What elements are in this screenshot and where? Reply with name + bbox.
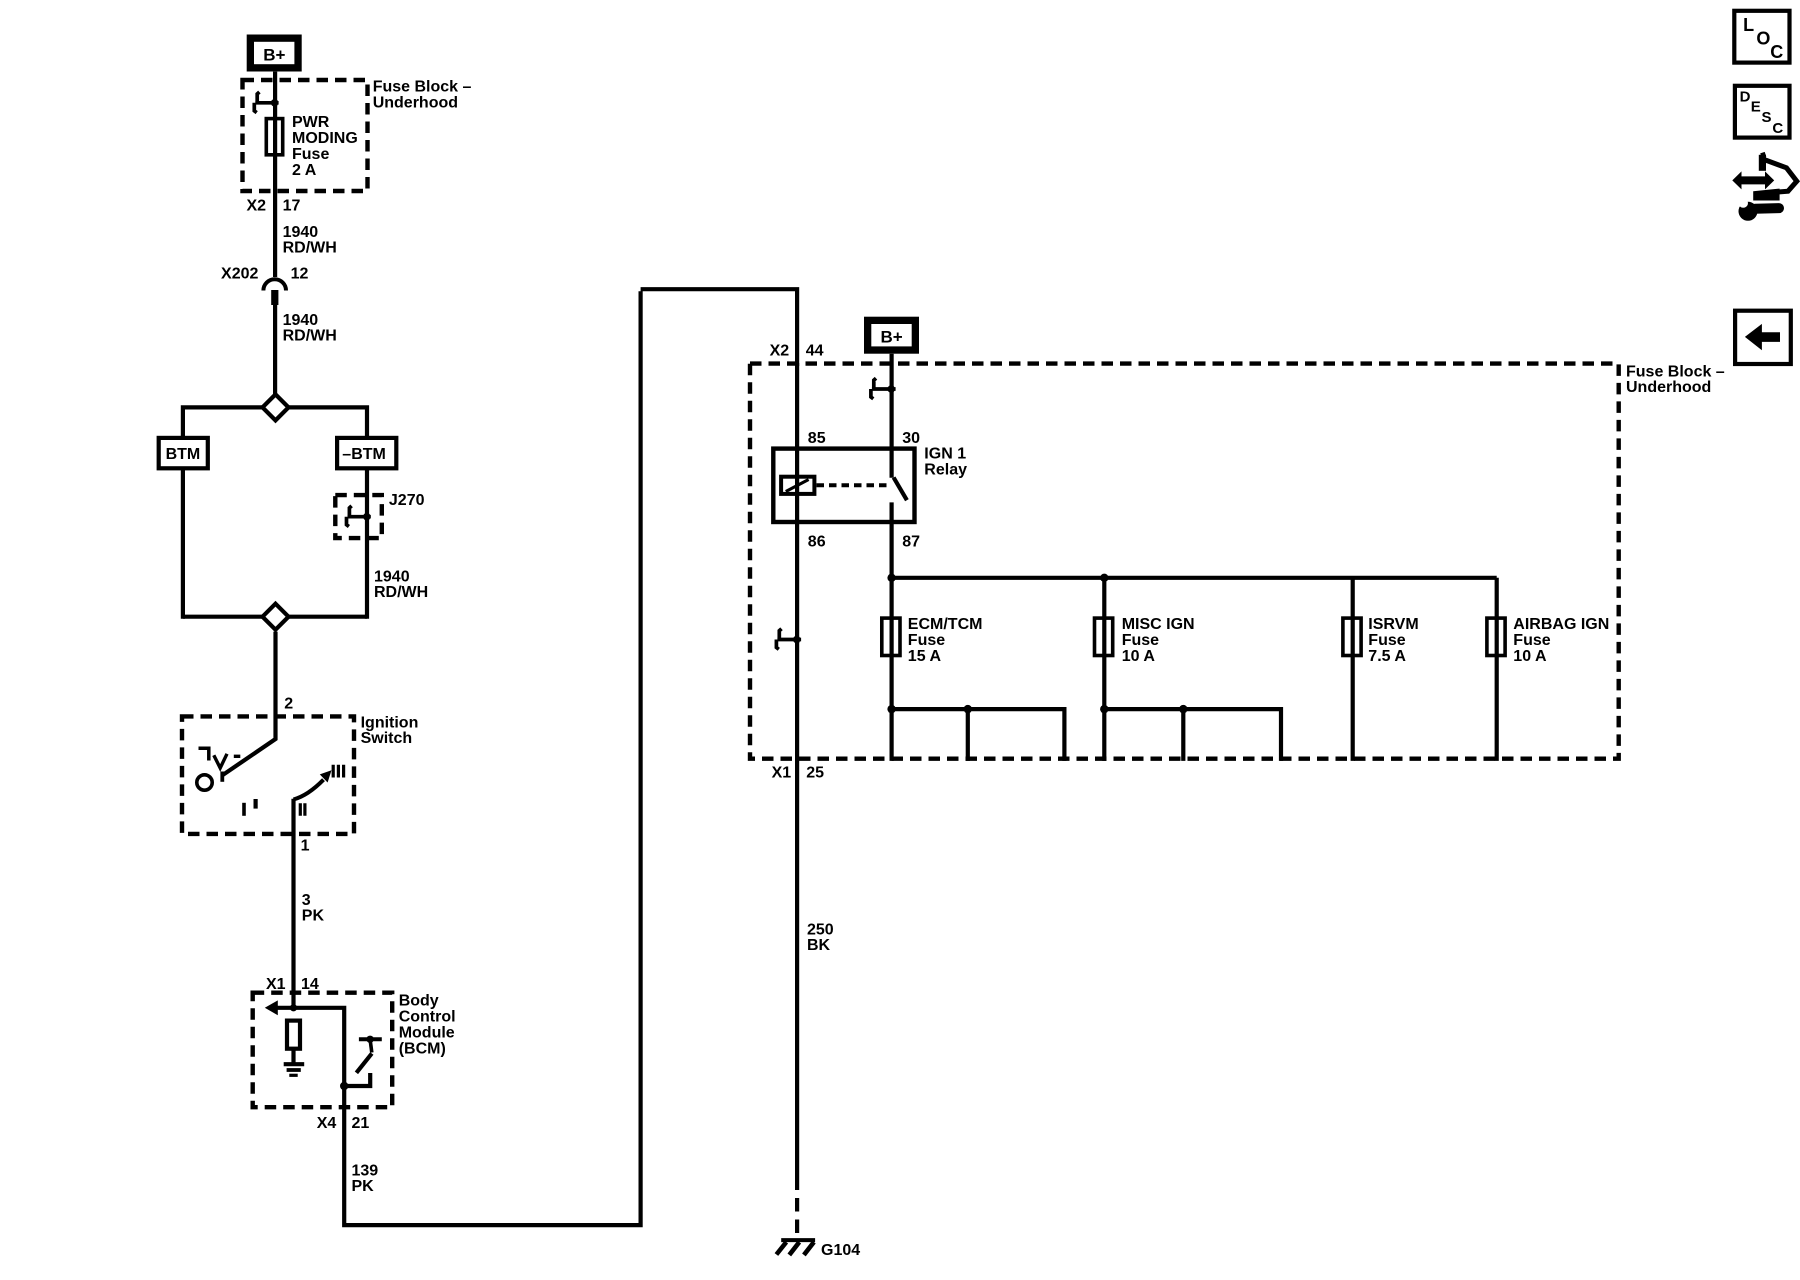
svg-text:PWR: PWR xyxy=(292,114,330,131)
svg-text:85: 85 xyxy=(808,430,826,447)
svg-text:250: 250 xyxy=(807,921,834,938)
svg-text:3: 3 xyxy=(302,892,311,909)
svg-text:Fuse: Fuse xyxy=(292,146,329,163)
svg-text:86: 86 xyxy=(808,533,826,550)
svg-text:L: L xyxy=(1743,15,1754,35)
wire BTM leg down xyxy=(181,468,185,619)
wire label 250 BK xyxy=(807,921,834,954)
wire resistor to internal ground xyxy=(291,1049,295,1063)
wire relay pin 85 through coil to pin 86 xyxy=(795,363,799,643)
wire ECM/TCM fuse lower branch xyxy=(887,705,1064,761)
svg-text:Ignition: Ignition xyxy=(361,715,419,732)
relay coil xyxy=(781,477,814,494)
svg-text:Underhood: Underhood xyxy=(1626,379,1711,396)
svg-text:G104: G104 xyxy=(821,1242,860,1259)
pin label X1 25 xyxy=(772,764,824,781)
wire X202 to top splice diamond xyxy=(273,305,277,394)
wire ignition switch pin 1 down to BCM xyxy=(291,799,295,1009)
BCM pull-down resistor xyxy=(287,1021,300,1049)
wire label 3 PK xyxy=(302,892,325,925)
fuse block underhood (right) dashed box xyxy=(750,364,1619,759)
LOC navigation box xyxy=(1734,11,1789,63)
svg-text:X4: X4 xyxy=(317,1115,337,1132)
wire relay pin 86 down to X1 25 and ground run xyxy=(795,641,799,1177)
svg-text:X1: X1 xyxy=(772,764,792,781)
svg-text:–BTM: –BTM xyxy=(342,446,386,463)
svg-text:S: S xyxy=(1762,109,1772,126)
svg-text:O: O xyxy=(1756,29,1770,49)
wire label 1940 RD/WH (second) xyxy=(283,312,337,345)
junction dot MISC IGN bus xyxy=(1100,574,1108,582)
BCM internal switch xyxy=(340,1036,382,1091)
svg-text:Underhood: Underhood xyxy=(373,94,458,111)
wire BCM pin X4 21 down and long run to right fuse block xyxy=(344,289,797,1227)
svg-text:Module: Module xyxy=(399,1024,455,1041)
svg-text:Fuse Block –: Fuse Block – xyxy=(1626,363,1725,380)
svg-text:PK: PK xyxy=(352,1178,375,1195)
back arrow navigation box xyxy=(1735,311,1791,364)
ignition switch position III mark xyxy=(333,765,343,778)
hotlink icon double arrow xyxy=(1732,171,1774,189)
svg-text:C: C xyxy=(1770,42,1783,62)
svg-text:MODING: MODING xyxy=(292,130,358,147)
svg-text:139: 139 xyxy=(352,1162,379,1179)
svg-text:RD/WH: RD/WH xyxy=(283,327,337,344)
svg-text:X2: X2 xyxy=(770,342,790,359)
svg-text:1940: 1940 xyxy=(283,312,319,329)
wire label 139 PK xyxy=(352,1162,379,1195)
svg-text:BK: BK xyxy=(807,937,831,954)
svg-text:25: 25 xyxy=(806,764,824,781)
svg-text:ECM/TCM: ECM/TCM xyxy=(908,616,983,633)
wire relay pin 87 down to fuse bus xyxy=(889,502,893,761)
fuse ECM/TCM 15 A xyxy=(882,616,983,665)
svg-text:RD/WH: RD/WH xyxy=(283,239,337,256)
svg-text:87: 87 xyxy=(902,533,920,550)
ignition switch ACC corner mark xyxy=(199,748,209,760)
ignition switch movable contact stub xyxy=(220,772,224,782)
svg-text:10 A: 10 A xyxy=(1122,648,1156,665)
svg-text:AIRBAG IGN: AIRBAG IGN xyxy=(1513,616,1609,633)
svg-text:C: C xyxy=(1772,120,1783,137)
pin label X2 17 xyxy=(247,198,301,215)
label IGN 1 Relay xyxy=(924,445,967,478)
dashed wire to ground G104 xyxy=(795,1177,799,1239)
svg-text:X2: X2 xyxy=(247,198,267,215)
svg-text:1940: 1940 xyxy=(283,224,319,241)
wire B+ terminal to PWR MODING fuse xyxy=(273,72,277,277)
svg-text:Fuse: Fuse xyxy=(908,632,945,649)
wire MISC IGN fuse lower branch xyxy=(1100,705,1281,761)
svg-text:BTM: BTM xyxy=(166,446,201,463)
wire B+ (right) to relay pin 30 xyxy=(889,354,893,478)
ignition switch LOCK position circle xyxy=(197,775,212,790)
svg-text:Fuse: Fuse xyxy=(1368,632,1405,649)
pin label X4 21 xyxy=(317,1115,370,1132)
Body Control Module dashed box xyxy=(253,993,393,1107)
fuse AIRBAG IGN 10 A xyxy=(1487,578,1609,761)
Ignition Switch dashed box xyxy=(182,716,354,834)
svg-text:MISC IGN: MISC IGN xyxy=(1122,616,1195,633)
svg-text:(BCM): (BCM) xyxy=(399,1040,446,1057)
label Fuse Block - Underhood (left) xyxy=(373,79,472,112)
terminal BTM xyxy=(159,438,208,468)
ignition switch position II mark xyxy=(300,803,305,816)
junction dot pin 87 bus xyxy=(887,574,895,582)
connector clip at right B+ feed xyxy=(871,378,896,399)
ignition switch position I mark xyxy=(242,803,246,816)
wire label 1940 RD/WH xyxy=(283,224,337,257)
svg-text:Fuse Block –: Fuse Block – xyxy=(373,79,472,96)
ground G104 xyxy=(776,1240,860,1259)
label Body Control Module (BCM) xyxy=(399,992,456,1057)
wire bottom diamond to ignition switch xyxy=(222,632,275,776)
hotlink icon outline arrow xyxy=(1753,154,1797,200)
svg-text:14: 14 xyxy=(301,976,319,993)
splice diamond (top) xyxy=(263,394,289,420)
svg-text:IGN 1: IGN 1 xyxy=(924,445,966,462)
svg-text:10 A: 10 A xyxy=(1513,648,1547,665)
svg-text:17: 17 xyxy=(283,198,301,215)
svg-text:21: 21 xyxy=(352,1115,370,1132)
svg-text:B+: B+ xyxy=(263,45,285,64)
svg-text:12: 12 xyxy=(291,265,309,282)
fuse PWR MODING 2 A xyxy=(266,119,282,155)
fuse bus wire xyxy=(892,576,1497,580)
svg-text:D: D xyxy=(1740,89,1751,106)
wire top diamond horizontal branch xyxy=(183,407,367,438)
svg-text:Body: Body xyxy=(399,992,439,1009)
svg-text:B+: B+ xyxy=(880,328,902,347)
svg-text:E: E xyxy=(1751,98,1761,115)
svg-text:Fuse: Fuse xyxy=(1122,632,1159,649)
svg-text:PK: PK xyxy=(302,908,325,925)
svg-text:2: 2 xyxy=(284,696,293,713)
svg-text:Fuse: Fuse xyxy=(1513,632,1550,649)
svg-text:1940: 1940 xyxy=(374,568,410,585)
connector clip at left fuse block feed xyxy=(254,92,278,113)
BCM internal ground xyxy=(284,1064,305,1075)
svg-text:X202: X202 xyxy=(221,265,258,282)
label Fuse Block - Underhood (right) xyxy=(1626,363,1725,396)
svg-text:7.5 A: 7.5 A xyxy=(1368,648,1406,665)
svg-text:ISRVM: ISRVM xyxy=(1368,616,1418,633)
wire label 1940 RD/WH (third) xyxy=(374,568,428,601)
connector clip on pin 86 wire xyxy=(776,629,801,650)
svg-text:X1: X1 xyxy=(266,976,286,993)
relay IGN 1 box xyxy=(773,449,914,522)
label PWR MODING Fuse 2 A xyxy=(292,114,358,179)
svg-text:Switch: Switch xyxy=(361,730,413,747)
fuse ISRVM 7.5 A xyxy=(1343,578,1419,761)
ignition switch rotor arm with arrow xyxy=(294,770,332,799)
terminal -BTM xyxy=(337,438,396,468)
battery positive terminal B+ (left) xyxy=(247,35,302,72)
pin label X2 44 (right fuse block) xyxy=(770,342,824,359)
svg-text:J270: J270 xyxy=(389,492,425,509)
fuse block underhood (left) dashed box xyxy=(243,80,368,191)
svg-text:RD/WH: RD/WH xyxy=(374,584,428,601)
svg-text:30: 30 xyxy=(902,430,920,447)
relay actuation dashed line xyxy=(817,483,889,487)
svg-text:2 A: 2 A xyxy=(292,162,317,179)
hotlink icon wrench xyxy=(1738,198,1784,221)
wire -BTM leg down xyxy=(365,468,369,619)
label Ignition Switch xyxy=(361,715,419,748)
battery positive terminal B+ (right) xyxy=(864,317,919,354)
svg-text:Relay: Relay xyxy=(924,461,967,478)
DESC navigation box xyxy=(1735,86,1790,138)
ignition switch dash mark xyxy=(234,755,241,758)
pin label X1 14 xyxy=(266,976,319,993)
svg-text:1: 1 xyxy=(301,837,310,854)
svg-text:44: 44 xyxy=(806,342,824,359)
splice diamond (bottom) xyxy=(183,604,367,630)
svg-text:15 A: 15 A xyxy=(908,648,942,665)
splice J270 xyxy=(335,492,424,538)
svg-text:Control: Control xyxy=(399,1008,456,1025)
fuse MISC IGN 10 A xyxy=(1095,578,1195,761)
ignition switch OFF V mark xyxy=(214,754,227,768)
ignition switch position I prime mark xyxy=(254,799,258,809)
in-line connector X202 pin 12 xyxy=(221,265,308,305)
relay switch blade xyxy=(894,478,907,501)
BCM input arrow line xyxy=(265,1000,344,1086)
